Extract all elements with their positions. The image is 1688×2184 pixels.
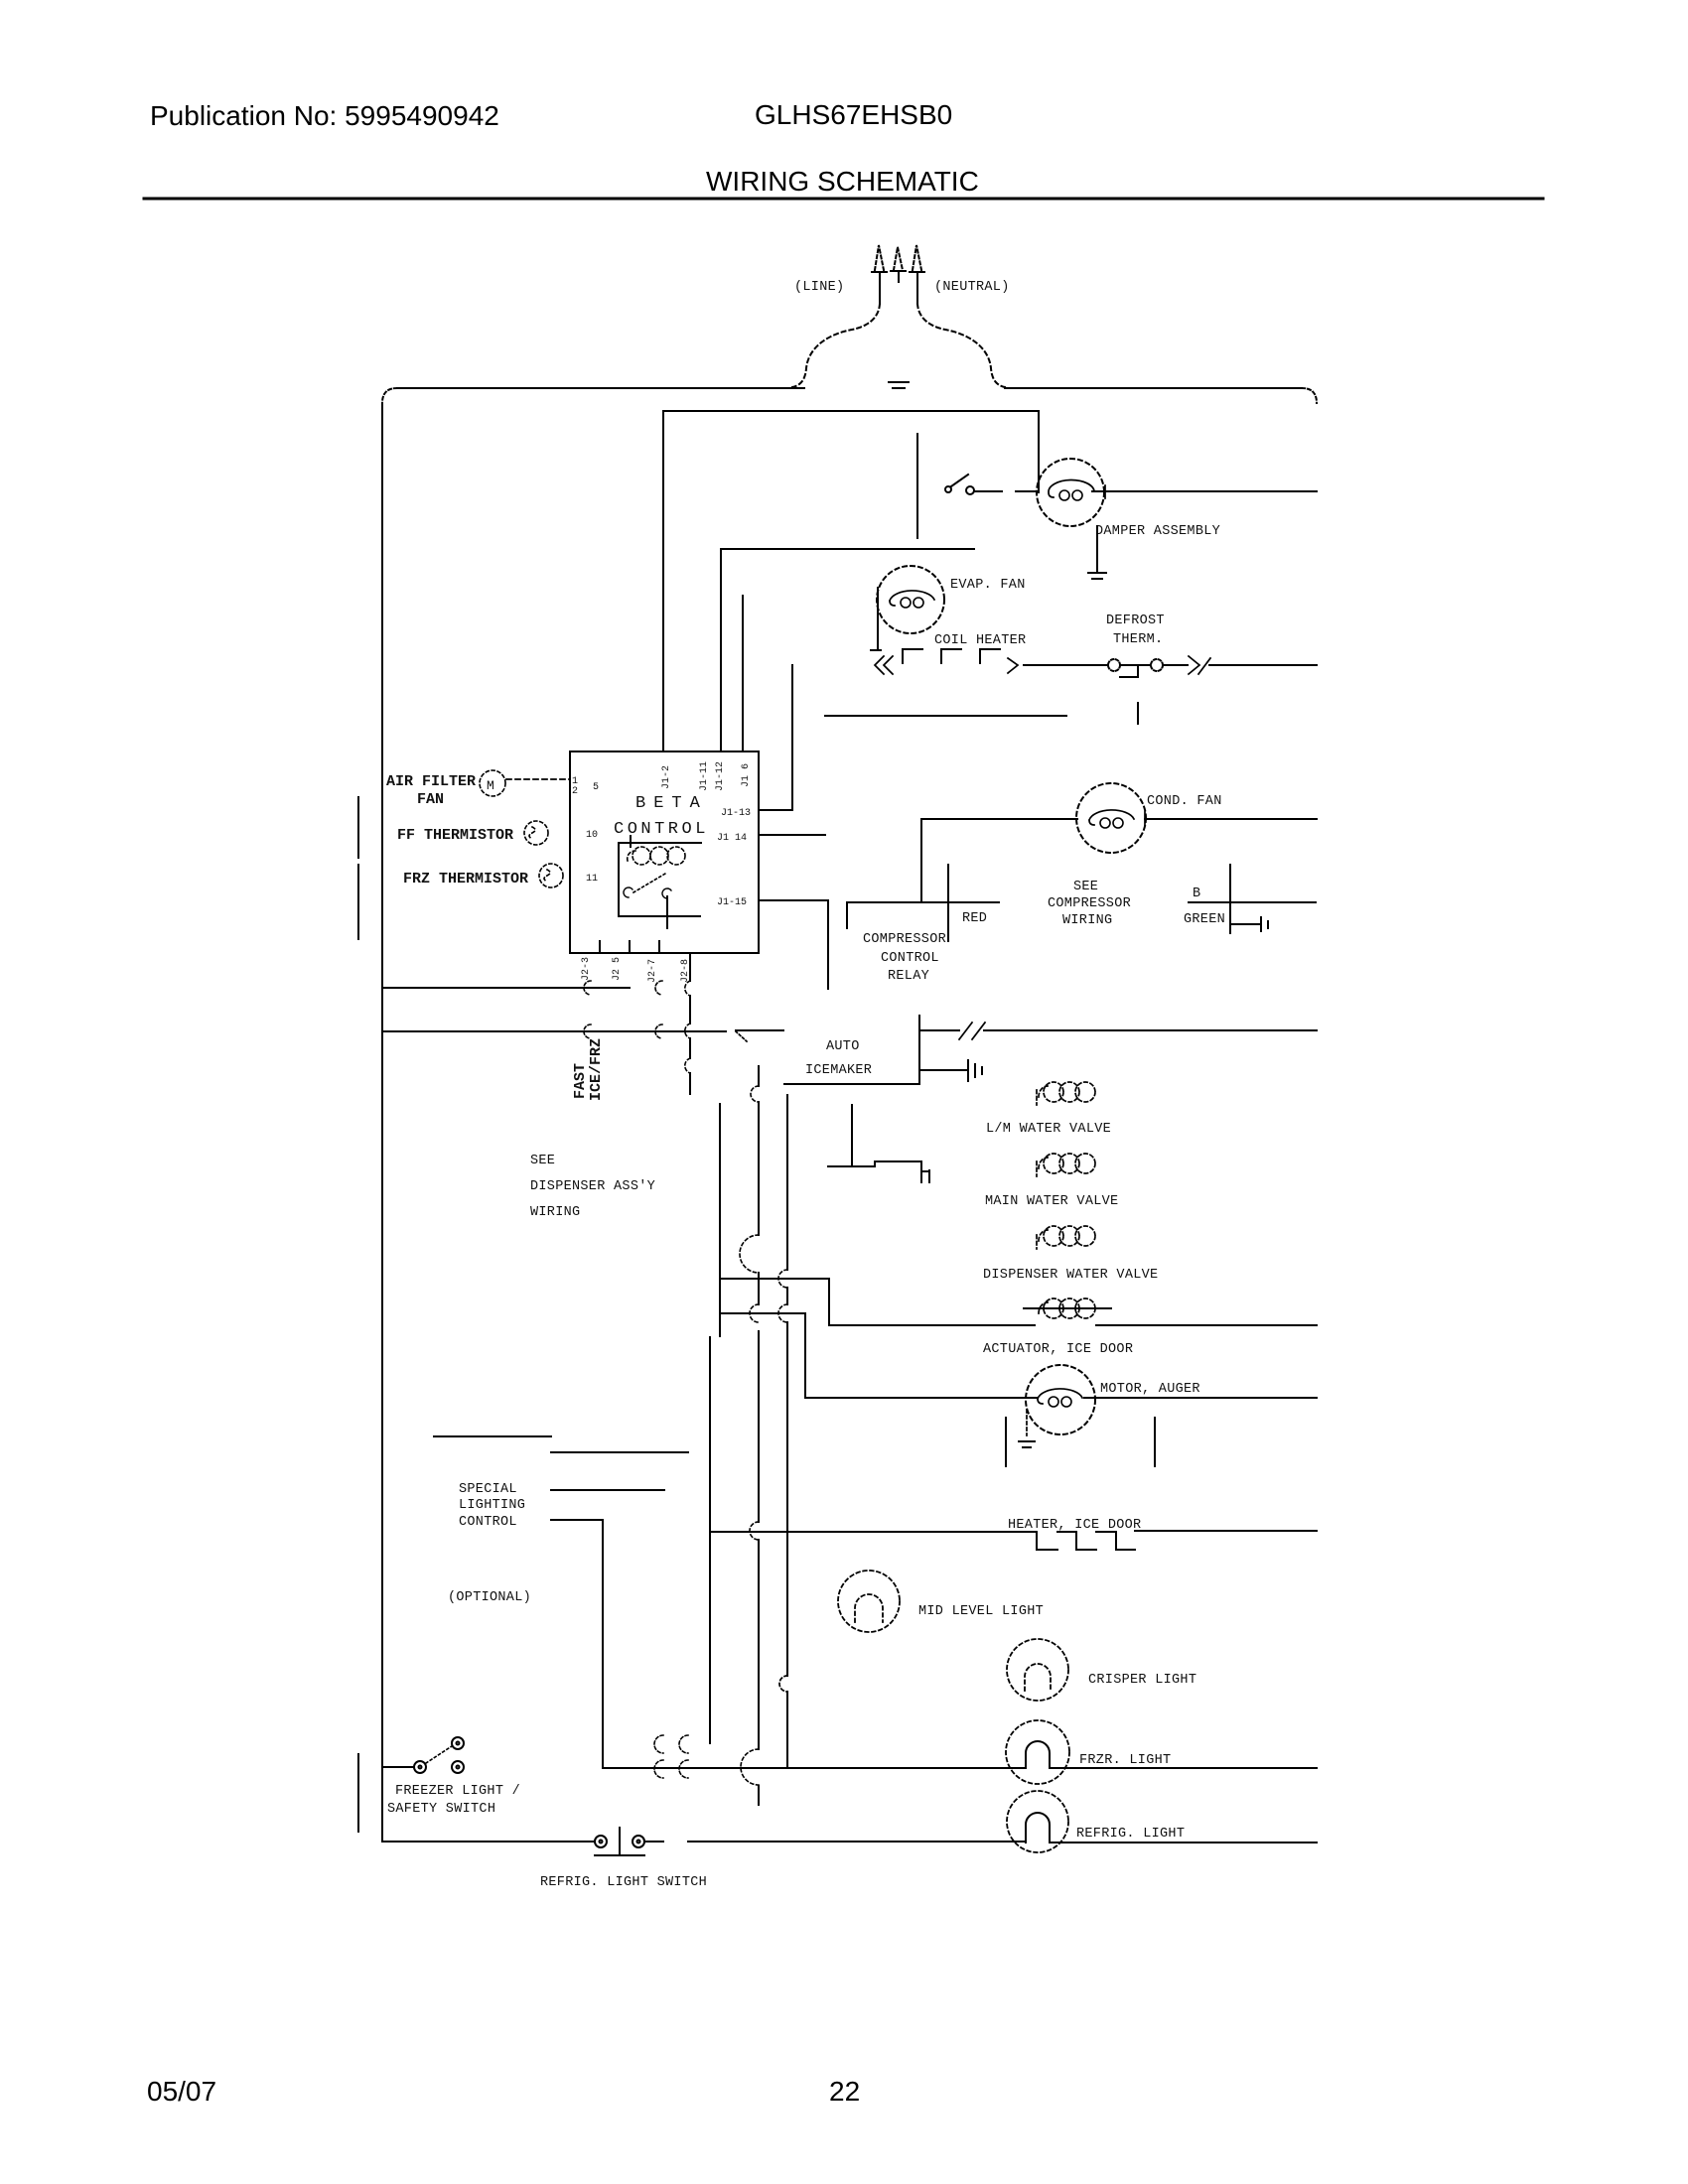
crisper light bulb (dashed) <box>1007 1639 1068 1701</box>
refrig light filament on wire <box>1026 1813 1050 1843</box>
svg-text:FRZR. LIGHT: FRZR. LIGHT <box>1079 1753 1171 1768</box>
svg-text:WIRING: WIRING <box>530 1205 580 1220</box>
mid level light bulb (dashed) <box>838 1570 900 1632</box>
bottom pin stubs <box>570 937 659 953</box>
svg-text:COMPRESSOR: COMPRESSOR <box>863 932 946 947</box>
wire J1-14 stub <box>760 834 825 836</box>
wire from LINE prong down <box>879 272 881 304</box>
defrost thermostat terminal right (dashed) <box>1151 659 1163 671</box>
wire J2-8 drop with crossover hops <box>689 955 691 1094</box>
damper assembly motor circle (dashed) <box>1037 459 1104 526</box>
wire heater to defrost thermostat <box>1024 664 1108 666</box>
connector chevrons evap lead <box>875 656 893 674</box>
svg-text:FAST: FAST <box>572 1063 589 1099</box>
svg-text:REFRIG. LIGHT SWITCH: REFRIG. LIGHT SWITCH <box>540 1875 707 1890</box>
ground terminal stub <box>1232 917 1268 931</box>
power plug prong NEUTRAL (dashed) <box>913 245 921 270</box>
heater ice door row wire left <box>710 1531 1037 1533</box>
bundle vertical wire C with hops <box>786 1095 788 1676</box>
relay switch blade (dotted) <box>633 874 665 892</box>
svg-text:LIGHTING: LIGHTING <box>459 1498 525 1513</box>
FF thermistor sensor (dashed circle) <box>524 821 548 845</box>
heater ice door junction riser <box>709 1337 711 1743</box>
cond fan wire left <box>921 818 1077 820</box>
special lighting control stub 3 <box>551 1489 664 1491</box>
svg-text:11: 11 <box>586 874 598 885</box>
svg-text:DEFROST: DEFROST <box>1106 614 1165 628</box>
svg-text:J2 5: J2 5 <box>612 957 623 981</box>
svg-text:05/07: 05/07 <box>147 2076 216 2107</box>
power plug prong GROUND middle (dashed) <box>894 247 903 270</box>
evap fan row bus wire <box>721 548 974 550</box>
main water valve coil (dashed) <box>1037 1154 1095 1176</box>
auger motor circle (dashed) <box>1026 1365 1095 1434</box>
relay coil windings (dashed) <box>628 847 685 865</box>
freezer safety switch lower terminal <box>452 1761 464 1773</box>
relay coil stub <box>630 836 632 847</box>
power cord left curve (dashed) <box>792 304 880 387</box>
connector hooks on upper row <box>584 981 662 995</box>
svg-text:J1-13: J1-13 <box>721 808 751 819</box>
outer box rounded corner top-left (dashed) <box>382 388 397 403</box>
damper door switch <box>945 475 1037 494</box>
svg-text:DISPENSER ASS'Y: DISPENSER ASS'Y <box>530 1179 655 1194</box>
auger aux stub right <box>1154 1418 1156 1466</box>
svg-text:SAFETY SWITCH: SAFETY SWITCH <box>387 1802 495 1817</box>
connector hooks pair lower on lights bus <box>654 1760 688 1778</box>
auger motor windings <box>1038 1389 1082 1404</box>
svg-text:GLHS67EHSB0: GLHS67EHSB0 <box>755 99 952 130</box>
svg-text:L/M WATER VALVE: L/M WATER VALVE <box>986 1122 1111 1137</box>
defrost thermostat body <box>1120 665 1150 677</box>
icemaker underline wire <box>784 1083 919 1085</box>
freezer safety switch blade (dotted) <box>426 1746 452 1763</box>
dispenser water valve coil (dashed) <box>1037 1226 1095 1249</box>
svg-text:CRISPER LIGHT: CRISPER LIGHT <box>1088 1673 1196 1688</box>
power cord right curve (dashed) <box>917 304 1005 387</box>
wire defrost to right edge <box>1209 664 1317 666</box>
svg-text:ACTUATOR, ICE DOOR: ACTUATOR, ICE DOOR <box>983 1342 1133 1357</box>
connector hooks on lower row <box>584 1024 662 1038</box>
bundle vertical wire A <box>719 1104 721 1336</box>
cond fan windings <box>1089 810 1134 825</box>
header rule line <box>144 198 1543 201</box>
lighting control drop wire <box>602 1520 604 1768</box>
coil heater element <box>903 649 1000 663</box>
svg-text:J1-12: J1-12 <box>715 761 726 791</box>
frzr light filament on wire <box>1026 1741 1050 1768</box>
svg-text:MOTOR, AUGER: MOTOR, AUGER <box>1100 1382 1200 1397</box>
actuator row wire <box>829 1324 1317 1326</box>
svg-text:B: B <box>1193 887 1200 901</box>
connector hooks pair upper on lights bus <box>654 1735 688 1753</box>
defrost stub below <box>1137 703 1139 724</box>
evap fan lead wire down <box>871 588 881 650</box>
wire J1-12 riser <box>720 549 722 751</box>
frzr light bulb (dashed) <box>1006 1720 1069 1784</box>
svg-text:FF THERMISTOR: FF THERMISTOR <box>397 827 513 844</box>
damper motor windings <box>1049 480 1094 497</box>
wire J1-13 to defrost riser <box>760 665 792 810</box>
svg-text:AUTO: AUTO <box>826 1039 860 1054</box>
svg-text:COND. FAN: COND. FAN <box>1147 794 1222 809</box>
relay box inside beta control <box>619 843 701 916</box>
icemaker right vertical <box>918 1016 920 1084</box>
svg-text:RELAY: RELAY <box>888 969 929 984</box>
auger ground bars <box>1019 1441 1035 1447</box>
compressor relay top wire <box>847 902 999 928</box>
outer box left edge <box>381 403 383 1840</box>
coil heater right arrow <box>1008 658 1018 673</box>
special lighting control stub 2 <box>551 1451 688 1453</box>
svg-text:DISPENSER WATER VALVE: DISPENSER WATER VALVE <box>983 1268 1158 1283</box>
heater ice door row wire right <box>1135 1530 1317 1532</box>
dashed lead M to board <box>506 778 570 780</box>
FRZ thermistor sensor (dashed circle) <box>539 864 563 887</box>
defrost thermostat terminal left (dashed) <box>1108 659 1120 671</box>
svg-text:REFRIG. LIGHT: REFRIG. LIGHT <box>1076 1827 1185 1842</box>
actuator coil through wire <box>1024 1307 1111 1309</box>
svg-text:10: 10 <box>586 830 598 841</box>
svg-text:GREEN: GREEN <box>1184 912 1225 927</box>
special lighting control stub 4 <box>551 1519 603 1521</box>
svg-text:J2-3: J2-3 <box>581 957 592 981</box>
bundle tap lower <box>720 1313 805 1398</box>
icemaker chassis ground bars <box>968 1060 982 1081</box>
evap fan windings <box>890 591 934 606</box>
power plug prong LINE (dashed) <box>875 245 884 270</box>
compressor ground horizontal wire <box>1189 901 1316 903</box>
svg-text:RED: RED <box>962 911 987 926</box>
svg-text:FAN: FAN <box>417 791 444 808</box>
svg-text:HEATER, ICE DOOR: HEATER, ICE DOOR <box>1008 1518 1141 1533</box>
wire damper feed riser <box>1038 411 1040 492</box>
svg-text:CONTROL: CONTROL <box>614 820 709 839</box>
refrig switch terminal left <box>595 1836 607 1847</box>
svg-text:WIRING SCHEMATIC: WIRING SCHEMATIC <box>706 166 979 197</box>
svg-text:COIL HEATER: COIL HEATER <box>934 633 1026 648</box>
svg-text:DAMPER ASSEMBLY: DAMPER ASSEMBLY <box>1095 524 1220 539</box>
svg-text:SEE: SEE <box>530 1154 555 1168</box>
top inner bus wire <box>663 410 1039 412</box>
svg-text:ICEMAKER: ICEMAKER <box>805 1063 872 1078</box>
svg-text:EVAP. FAN: EVAP. FAN <box>950 578 1026 593</box>
freezer light safety switch feed <box>382 1766 414 1768</box>
svg-text:SPECIAL: SPECIAL <box>459 1482 517 1497</box>
svg-text:M: M <box>487 778 494 793</box>
lower bus wire under evap row <box>825 715 1066 717</box>
svg-text:CONTROL: CONTROL <box>881 951 939 966</box>
icemaker pin stub <box>851 1105 853 1166</box>
wire C lower segment <box>786 1692 788 1768</box>
wire defrost to connector <box>1163 664 1188 666</box>
svg-text:WIRING: WIRING <box>1062 913 1112 928</box>
special lighting control stub 1 <box>434 1435 551 1437</box>
relay output pin wire <box>666 896 668 928</box>
outer box top edge right segment <box>1005 387 1302 389</box>
svg-text:THERM.: THERM. <box>1113 632 1163 647</box>
svg-text:(OPTIONAL): (OPTIONAL) <box>448 1590 531 1605</box>
cord ground mark <box>889 382 909 388</box>
svg-text:MID LEVEL LIGHT: MID LEVEL LIGHT <box>918 1604 1044 1619</box>
wire J1-15 to compressor relay <box>760 900 828 989</box>
svg-text:J1-11: J1-11 <box>699 761 710 791</box>
bundle vertical wire A lower <box>709 1337 711 1743</box>
BETA control board box <box>570 751 759 953</box>
auger aux stub left <box>1005 1418 1007 1466</box>
auger ground lead (dashed) <box>1026 1410 1028 1435</box>
icemaker feed switch blade (dotted) <box>736 1031 747 1041</box>
wire cond fan to right edge <box>1145 818 1317 820</box>
svg-text:Publication No: 5995490942: Publication No: 5995490942 <box>150 100 499 131</box>
relay switch contacts <box>624 887 671 898</box>
wire damper to right edge <box>1092 490 1317 492</box>
wire J1-6 stub <box>742 596 744 751</box>
air filter fan motor M (dashed circle) <box>480 770 505 796</box>
svg-text:FRZ THERMISTOR: FRZ THERMISTOR <box>403 871 528 887</box>
svg-text:J1 14: J1 14 <box>717 833 747 844</box>
svg-text:5: 5 <box>593 782 599 793</box>
svg-text:BETA: BETA <box>635 794 708 813</box>
svg-text:CONTROL: CONTROL <box>459 1515 517 1530</box>
wire to icemaker <box>736 1029 783 1031</box>
compressor ground: vertical green wire <box>1229 865 1231 933</box>
freezer safety switch upper terminal <box>452 1737 464 1749</box>
heater ice door element <box>1037 1532 1135 1550</box>
outer box top edge left segment <box>397 387 804 389</box>
defrost connector arrow and switch <box>1189 656 1210 674</box>
bundle vertical wire B with hops <box>758 1066 760 1805</box>
evap fan motor circle (dashed) <box>877 566 944 633</box>
bottom wire to refrig light switch <box>382 1841 595 1843</box>
svg-text:J2-7: J2-7 <box>647 959 658 983</box>
svg-text:(NEUTRAL): (NEUTRAL) <box>934 280 1010 295</box>
svg-text:22: 22 <box>829 2076 860 2107</box>
svg-text:J1-15: J1-15 <box>717 897 747 908</box>
freezer safety switch common terminal <box>414 1761 426 1773</box>
svg-text:AIR FILTER: AIR FILTER <box>386 773 476 790</box>
icemaker switched output with double slash <box>919 1029 1317 1031</box>
wire from NEUTRAL prong down <box>916 272 918 304</box>
refrig switch output wire <box>644 1842 1317 1843</box>
svg-text:2: 2 <box>572 786 578 797</box>
actuator ice door coil (dashed) <box>1039 1298 1095 1318</box>
stub wire above damper switch <box>916 434 918 538</box>
outer box rounded corner top-right (dashed) <box>1302 388 1317 403</box>
wire J1-2 riser <box>662 411 664 751</box>
row wire J2 lower (fast ice feed) <box>382 1030 726 1032</box>
svg-text:SEE: SEE <box>1073 880 1098 894</box>
icemaker lower connector trace <box>828 1161 929 1182</box>
prong base bars <box>872 271 924 282</box>
svg-text:J1-2: J1-2 <box>661 765 672 789</box>
water valve coil L/M (dashed) <box>1037 1082 1095 1105</box>
bundle tap upper <box>720 1279 829 1325</box>
registration tick marks outside left edge <box>357 797 359 1832</box>
svg-text:ICE/FRZ: ICE/FRZ <box>588 1038 605 1101</box>
icemaker ground lead <box>919 1069 966 1071</box>
refrig switch plunger <box>595 1828 644 1855</box>
svg-text:COMPRESSOR: COMPRESSOR <box>1048 896 1131 911</box>
row wire J2 upper with connectors <box>382 987 630 989</box>
refrig switch terminal right <box>633 1836 644 1847</box>
auger motor row wire <box>805 1397 1317 1399</box>
lights bus wire <box>603 1767 1317 1769</box>
svg-text:J1 6: J1 6 <box>741 763 752 787</box>
compressor feed riser from cond fan row <box>920 819 922 902</box>
svg-text:(LINE): (LINE) <box>794 280 844 295</box>
svg-text:MAIN WATER VALVE: MAIN WATER VALVE <box>985 1194 1118 1209</box>
wire C connector arc (dashed) <box>779 1676 787 1692</box>
refrig light bulb (dashed) <box>1007 1791 1068 1852</box>
icemaker double slash switch <box>959 1023 985 1039</box>
cond fan motor circle (dashed) <box>1076 783 1146 853</box>
damper ground <box>1088 526 1106 579</box>
compressor relay vertical <box>947 865 949 941</box>
svg-text:FREEZER LIGHT /: FREEZER LIGHT / <box>395 1784 520 1799</box>
